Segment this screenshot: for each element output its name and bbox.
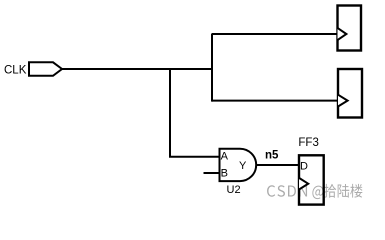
- svg-text:U2: U2: [227, 184, 241, 196]
- svg-text:Y: Y: [239, 160, 247, 172]
- svg-text:A: A: [221, 150, 229, 162]
- svg-text:FF3: FF3: [298, 137, 318, 149]
- svg-text:D: D: [300, 161, 308, 173]
- svg-text:n5: n5: [265, 150, 279, 162]
- svg-text:B: B: [221, 167, 228, 179]
- svg-text:CLK: CLK: [4, 64, 27, 76]
